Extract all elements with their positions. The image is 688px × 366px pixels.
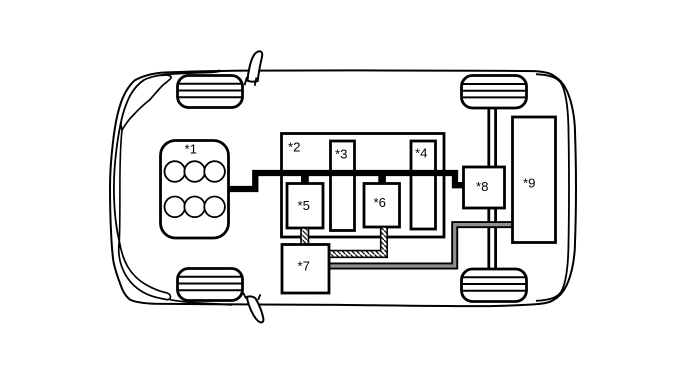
front top crescent (windshield pillar) [121, 75, 171, 130]
svg-text:*8: *8 [476, 179, 488, 194]
bottom mirror feet [243, 293, 260, 300]
box *9 [513, 117, 556, 243]
hatched wire *5 to *7 [301, 228, 309, 245]
svg-text:*9: *9 [523, 176, 535, 191]
bottom mirror [247, 296, 264, 322]
svg-text:*7: *7 [298, 259, 310, 274]
svg-text:*6: *6 [374, 195, 386, 210]
front bottom crescent [119, 241, 171, 299]
wheel rear-bottom [462, 269, 527, 302]
rear axle [489, 108, 496, 270]
hood line end tick top [212, 70, 221, 72]
hood line connecting crescents [119, 130, 122, 241]
hatched wire *6 to *7 (L-shape) [328, 227, 387, 257]
wheel front-bottom [178, 269, 243, 301]
svg-text:*4: *4 [415, 146, 427, 161]
box *5 [287, 184, 323, 229]
box *2 (junction block outline) [282, 134, 445, 238]
main bus wire [228, 173, 464, 189]
box *1 (engine room relay block) [161, 141, 229, 239]
car inner rear line [536, 74, 569, 301]
car inner front (bumper) line [114, 71, 222, 241]
stub to *5 [301, 175, 309, 184]
wheel rear-top [462, 76, 527, 109]
box *3 [331, 141, 355, 231]
top mirror feet [245, 77, 257, 86]
box *6 [364, 184, 400, 228]
svg-text:*3: *3 [335, 147, 347, 162]
stub to *6 [378, 175, 386, 184]
top mirror [248, 51, 263, 81]
box *4 [411, 141, 436, 229]
svg-text:*1: *1 [185, 141, 197, 156]
box *8 [464, 167, 505, 208]
gray shielded wire *7 to *9 [328, 225, 514, 266]
svg-text:*5: *5 [298, 198, 310, 213]
car body outer outline [110, 70, 576, 306]
rocker line bottom (crescent hook to tick) [170, 300, 232, 305]
wheel front-top [178, 76, 243, 108]
svg-text:*2: *2 [288, 140, 300, 155]
box *7 [282, 245, 329, 294]
